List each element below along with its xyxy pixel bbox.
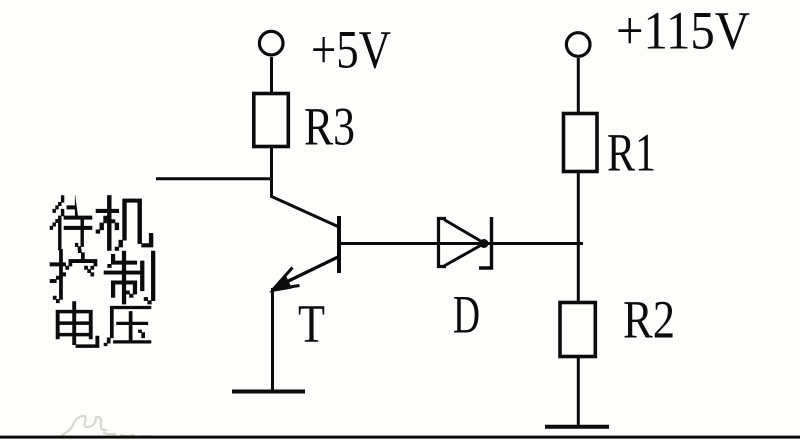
+115V supply terminal circle [566,33,590,57]
wire: emitter down to ground [271,288,274,392]
label 待 (standby) [50,196,92,251]
label 制 [104,251,155,304]
label 电 (electric) [56,302,99,348]
transistor T base bar [337,216,341,273]
wire: R1 bottom through junction to R2 top [577,171,580,303]
svg-text:D: D [453,285,480,345]
wire: slant to transistor base bar [271,196,340,227]
wire: R3 bottom down to base slant [270,146,273,197]
svg-text:R1: R1 [607,123,656,183]
svg-text:T: T [298,294,325,354]
+5V supply terminal circle [259,31,283,55]
wire: R2 bottom to ground [577,356,580,427]
watermark squiggle (bottom-left) [62,416,151,437]
wire: base input horizontal [156,177,273,180]
diode D triangle edges [444,220,484,267]
resistor R3 [254,94,288,147]
label 机 [96,195,153,250]
ground (right) [545,425,609,429]
label 压 (voltage/pressure) [104,306,151,346]
diode D anode bar with hooks [439,219,447,267]
bottom border line [0,436,800,439]
svg-text:R3: R3 [304,97,355,157]
wire: +5V terminal to R3 top [270,57,273,93]
label 控 (control) [50,249,97,302]
svg-text:+5V: +5V [311,20,391,80]
diode D cathode bar with foot [479,217,492,268]
wire: +115V terminal to R1 [577,58,580,113]
resistor R2 [560,303,595,357]
ground (left) [232,390,305,394]
svg-text:R2: R2 [623,290,675,350]
diode junction dot [480,239,489,248]
resistor R1 [564,114,598,172]
svg-text:+115V: +115V [616,1,750,61]
transistor T emitter with arrow [271,257,339,292]
wire: collector horizontal to right rail [339,242,583,245]
